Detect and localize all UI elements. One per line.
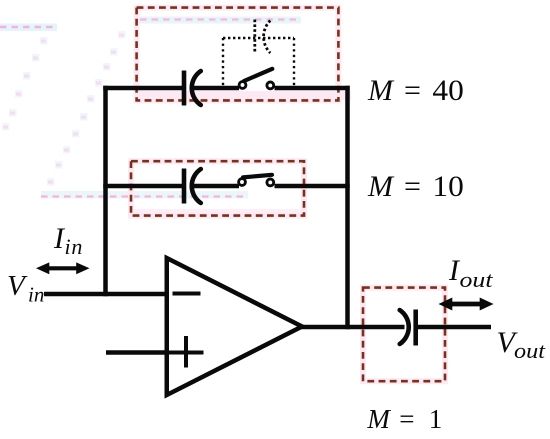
wire non-inverting input [106,350,169,355]
capacitor C1 curved plate [400,310,409,344]
op-amp plus input symbol [169,336,204,368]
wire top branch right segment [275,86,350,91]
svg-text:=: = [404,170,421,203]
red dashed box M=40 branch (pink halo) [137,8,339,101]
wire top branch middle segment [193,86,240,91]
svg-text:out: out [514,338,546,363]
svg-text:40: 40 [432,74,463,107]
label Iout [448,254,494,292]
svg-text:=: = [404,74,421,107]
capacitor C1 straight plate [413,310,418,346]
svg-text:in: in [28,283,44,307]
Iout double arrow [439,298,494,311]
label Iin [53,222,83,259]
wire middle branch middle segment [193,184,240,189]
dotted alternative capacitor branch: left riser [222,38,224,86]
red dashed box M=1 output (pink halo) [363,288,445,382]
Iin double arrow [36,262,90,274]
op-amp minus input symbol [173,292,201,296]
svg-text:out: out [460,267,494,292]
op-amp U1 triangle [167,258,302,395]
wire top branch left segment [103,86,182,91]
artifact ghost line top-left [0,24,57,32]
wire output right segment [418,325,492,330]
dotted branch right riser [293,38,295,86]
switch S40 lever (open) [244,69,272,81]
label M = 40 [367,74,464,107]
label Vout [497,326,546,363]
artifact chain A [2,37,48,131]
svg-text:in: in [65,234,84,259]
capacitor C40 curved plate [192,71,201,105]
label M = 1 [366,404,442,434]
dotted branch top wire [223,37,294,39]
svg-text:M: M [367,170,395,203]
wire right feedback bus [345,86,350,329]
switch S10 lever (nearly closed) [243,175,272,178]
svg-text:=: = [399,404,414,434]
svg-text:M: M [366,404,391,434]
artifact chain B [47,31,126,186]
dotted capacitor curved plate [264,21,271,54]
capacitor C10 straight plate [182,169,187,204]
svg-text:10: 10 [432,170,463,203]
capacitor C10 curved plate [192,169,201,203]
switch S40 right contact [267,82,274,89]
wire middle branch right segment [275,184,350,189]
wire Vin input [44,292,169,297]
label M = 10 [367,170,464,203]
label Vin [7,270,44,307]
switch S40 left contact [239,82,246,89]
capacitor C40 straight plate [182,71,187,106]
wire middle branch left segment [103,184,182,189]
svg-text:M: M [367,74,395,107]
wire output left segment [300,325,405,330]
dotted capacitor straight plate [253,20,256,52]
wire left feedback bus [103,86,108,296]
svg-text:1: 1 [429,404,443,434]
switch S10 right contact [267,179,274,186]
artifact ghost dashes inside top box [138,17,351,101]
red dashed box M=10 branch (pink halo) [131,161,304,215]
switch S10 left contact [239,179,246,186]
artifact ghosts middle box [41,191,303,215]
